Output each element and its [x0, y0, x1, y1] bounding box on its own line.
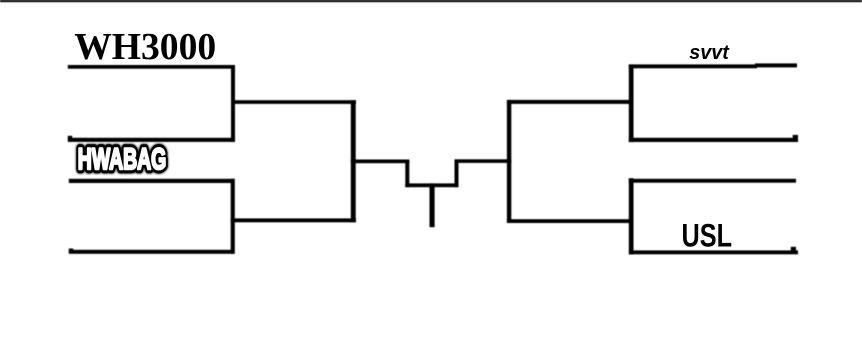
wire L1 team line WH3000 [68, 65, 235, 69]
wire L8 lower team line of match 4 [631, 250, 798, 254]
wire W1 match 1 winner line [231, 100, 356, 104]
wire L7 team line USL top [629, 179, 796, 183]
wire champion stub [430, 183, 435, 227]
svg-text:svvt: svvt [689, 41, 730, 64]
wire L4 start tick [69, 249, 73, 253]
svg-text:HWABAG: HWABAG [78, 143, 167, 176]
top border bar [0, 0, 862, 2]
wire L6 end tick [793, 135, 798, 139]
wire F1 left final line [351, 160, 410, 164]
wire V2 match 2 vertical [231, 179, 235, 254]
wire W2 match 2 winner line [231, 218, 356, 222]
wire L2 start tick [68, 136, 72, 140]
wire W4 match 4 winner line [507, 219, 634, 223]
wire B1 bottom connector [405, 183, 458, 187]
wire F2 right final line [455, 159, 512, 163]
wire L4 lower team line of match 2 [69, 250, 235, 254]
wire L5 right thinner segment [755, 63, 797, 67]
wire V4 right semifinal vertical [507, 100, 511, 223]
wire V5 match 3 vertical [629, 64, 634, 142]
wire L3 team line HWABAG [69, 179, 235, 183]
wire D2 right rise [455, 160, 459, 188]
svg-text:USL: USL [682, 218, 733, 254]
svg-text:WH3000: WH3000 [74, 26, 216, 68]
wire W3 match 3 winner line [507, 100, 634, 104]
wire L6 lower team line of match 3 [629, 138, 798, 142]
wire V1 match 1 vertical [231, 65, 235, 142]
wire V3 left semifinal vertical [351, 100, 356, 222]
wire D1 left drop [405, 160, 409, 188]
wire L2 lower team line of match 1 [68, 138, 235, 142]
wire V6 match 4 vertical [629, 178, 634, 254]
wire L8 end tick [791, 247, 796, 251]
wire L5 team line svvt [629, 64, 757, 68]
